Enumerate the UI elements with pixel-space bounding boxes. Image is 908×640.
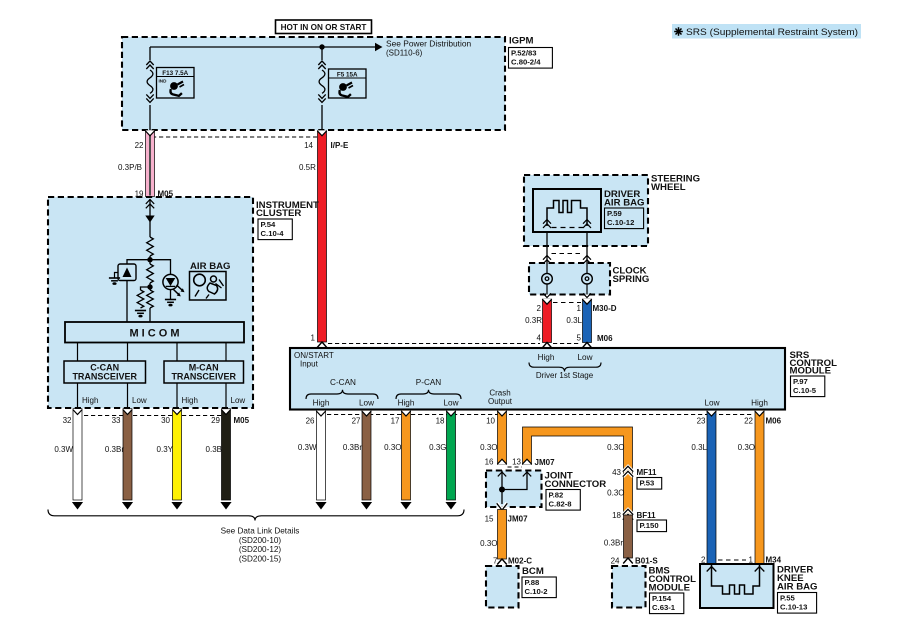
svg-text:CLUSTER: CLUSTER	[256, 208, 301, 219]
svg-text:JM07: JM07	[508, 515, 529, 524]
svg-text:F5 15A: F5 15A	[337, 71, 358, 78]
wire 0.3P/B pink-black	[146, 131, 155, 197]
box MICOM	[65, 322, 244, 343]
svg-text:0.3O: 0.3O	[480, 443, 497, 452]
svg-text:Output: Output	[488, 397, 513, 406]
svg-text:P.88: P.88	[525, 578, 541, 587]
svg-text:JM07: JM07	[535, 458, 556, 467]
svg-text:18: 18	[612, 511, 621, 520]
resistor R2	[147, 264, 154, 283]
fuse F13 label box	[157, 68, 195, 99]
svg-text:IGPM: IGPM	[509, 36, 534, 47]
svg-text:P-CAN: P-CAN	[416, 378, 442, 387]
ground G2	[135, 310, 146, 312]
module BMS control module box	[612, 566, 646, 608]
svg-text:(SD200-15): (SD200-15)	[239, 554, 282, 563]
label cluster page refs	[258, 219, 292, 240]
svg-text:TRANSCEIVER: TRANSCEIVER	[171, 372, 236, 382]
wire node B branch	[141, 287, 151, 290]
svg-text:14: 14	[304, 141, 313, 150]
connector BF11 chevrons	[623, 510, 633, 515]
svg-text:M02-C: M02-C	[508, 557, 532, 566]
chevron pin1 SRS entry	[317, 342, 327, 348]
svg-text:AIR BAG: AIR BAG	[604, 198, 645, 209]
svg-text:P.150: P.150	[640, 521, 659, 530]
svg-text:Low: Low	[704, 399, 719, 408]
label BCM page refs	[522, 577, 556, 598]
svg-text:4: 4	[537, 334, 542, 343]
svg-text:MODULE: MODULE	[649, 583, 691, 594]
module SRS control box	[290, 348, 785, 410]
svg-text:(SD200-12): (SD200-12)	[239, 545, 282, 554]
svg-text:26: 26	[306, 417, 315, 426]
LED emission arrows	[177, 285, 183, 290]
icon asterisk	[674, 27, 683, 36]
svg-text:Low: Low	[577, 353, 592, 362]
svg-text:High: High	[398, 399, 415, 408]
svg-text:C.10-5: C.10-5	[793, 386, 817, 395]
chevron joint connector exit	[497, 503, 507, 510]
wire node A to comparator	[127, 260, 150, 264]
svg-text:16: 16	[485, 458, 494, 467]
resistor R3	[137, 290, 144, 308]
wire 0.3Y cluster M-CAN High	[173, 409, 182, 500]
wire 0.3O SRS P-CAN High	[402, 410, 411, 500]
svg-text:22: 22	[135, 141, 144, 150]
squib driver air bag	[547, 201, 587, 227]
module driver air bag box	[533, 189, 601, 232]
module steering wheel box	[524, 175, 648, 246]
svg-text:High: High	[538, 353, 555, 362]
wires driver airbag to clock spring	[546, 232, 548, 263]
svg-text:Low: Low	[359, 399, 374, 408]
svg-text:C.10-2: C.10-2	[525, 587, 548, 596]
svg-text:22: 22	[744, 417, 753, 426]
resistor R1	[147, 237, 154, 256]
svg-text:BCM: BCM	[522, 566, 544, 577]
svg-text:27: 27	[352, 417, 361, 426]
wire R4 to MICOM	[149, 308, 151, 322]
svg-text:P.54: P.54	[261, 220, 277, 229]
svg-text:24: 24	[611, 557, 620, 566]
svg-text:0.3Br: 0.3Br	[343, 443, 362, 452]
svg-text:43: 43	[612, 468, 621, 477]
svg-text:BF11: BF11	[637, 511, 657, 520]
wire 0.3O elbow JM07 to MF11	[523, 427, 633, 515]
svg-text:C.10-4: C.10-4	[261, 229, 285, 238]
svg-text:High: High	[751, 399, 768, 408]
svg-text:WHEEL: WHEEL	[651, 182, 686, 193]
coil clock spring right	[586, 263, 588, 274]
svg-text:30: 30	[161, 416, 170, 425]
svg-text:CONNECTOR: CONNECTOR	[545, 479, 607, 490]
junction node B	[147, 284, 152, 289]
diode D1	[145, 216, 154, 223]
svg-text:7: 7	[493, 557, 498, 566]
connector M06 bottom dashed line	[327, 414, 752, 416]
svg-text:P.52/83: P.52/83	[511, 48, 537, 57]
svg-text:32: 32	[63, 416, 72, 425]
svg-text:F13 7.5A: F13 7.5A	[162, 70, 188, 77]
svg-text:5: 5	[577, 334, 582, 343]
connector M34 dashed line	[718, 559, 746, 561]
wire 0.3O JM07 to BCM	[498, 510, 507, 560]
svg-text:0.3W: 0.3W	[54, 445, 73, 454]
fuse F13 7.5A symbol	[146, 61, 153, 65]
svg-text:P.55: P.55	[780, 593, 796, 602]
comparator U2 box	[118, 264, 136, 281]
svg-text:0.3W: 0.3W	[298, 443, 317, 452]
wire 0.3W SRS C-CAN High	[317, 410, 326, 500]
svg-text:0.3O: 0.3O	[384, 443, 401, 452]
svg-text:C.82-8: C.82-8	[549, 499, 573, 508]
svg-text:0.3O: 0.3O	[738, 443, 755, 452]
wires MICOM to transceivers	[77, 343, 79, 362]
connector JM07 dashed line	[508, 466, 523, 468]
module driver knee air bag box	[700, 564, 774, 608]
LED airbag warning lamp	[163, 274, 178, 289]
label BMS page refs	[650, 593, 684, 614]
chevrons clock spring entry	[543, 256, 551, 260]
module IGPM box	[122, 37, 505, 130]
svg-text:1: 1	[311, 334, 316, 343]
cluster entry chevrons	[146, 200, 154, 204]
wire 0.3Br SRS C-CAN Low	[362, 410, 371, 500]
icon airbag cluster	[190, 272, 227, 301]
svg-text:MODULE: MODULE	[790, 366, 832, 377]
brace driver 1st stage	[529, 363, 601, 372]
svg-text:P.53: P.53	[640, 478, 655, 487]
ground G1	[115, 273, 119, 278]
wire 0.3R red clock spring to SRS	[543, 299, 552, 343]
wire 0.3G SRS P-CAN Low	[447, 410, 456, 500]
svg-text:13: 13	[512, 458, 521, 467]
wire 0.3L SRS to knee airbag	[707, 410, 716, 564]
svg-text:0.3R: 0.3R	[525, 316, 542, 325]
fuse F5 label box	[329, 69, 367, 98]
wires transceivers to cluster edge	[77, 383, 79, 408]
resistor R4	[147, 290, 154, 308]
wire 0.3W cluster C-CAN High	[73, 409, 82, 500]
svg-text:M05: M05	[234, 416, 250, 425]
svg-text:23: 23	[697, 417, 706, 426]
svg-text:C.10-13: C.10-13	[780, 602, 807, 611]
connector M05 dashed line	[84, 415, 231, 417]
wire 0.3B cluster M-CAN Low	[222, 409, 231, 500]
icon airbag F5	[339, 83, 347, 91]
squib knee air bag	[712, 564, 760, 594]
junction node A	[147, 257, 152, 262]
svg-text:M06: M06	[597, 334, 613, 343]
svg-text:SPRING: SPRING	[613, 274, 650, 285]
chevrons knee airbag entries	[707, 567, 717, 572]
svg-text:1: 1	[577, 304, 582, 313]
connector dashed line steering	[552, 253, 584, 255]
svg-text:0.3Br: 0.3Br	[105, 445, 124, 454]
svg-text:10: 10	[486, 417, 495, 426]
svg-text:2: 2	[537, 304, 542, 313]
svg-text:P.82: P.82	[549, 490, 564, 499]
wire LED to ground	[170, 290, 172, 299]
svg-text:B01-S: B01-S	[635, 557, 658, 566]
module clock spring box	[529, 263, 610, 295]
svg-text:TRANSCEIVER: TRANSCEIVER	[72, 372, 137, 382]
box M-CAN transceiver	[164, 361, 244, 383]
svg-text:Low: Low	[443, 399, 458, 408]
svg-text:(SD200-10): (SD200-10)	[239, 536, 282, 545]
svg-text:C.63-1: C.63-1	[652, 603, 676, 612]
junction power bus at F5	[319, 44, 324, 49]
chevrons clock spring exit	[543, 293, 551, 297]
svg-text:MF11: MF11	[637, 468, 658, 477]
note SRS header highlight	[672, 24, 861, 39]
svg-text:P.154: P.154	[652, 594, 672, 603]
connector MF11 chevrons	[623, 467, 633, 472]
chevrons joint connector entries	[498, 472, 506, 476]
svg-text:(SD110-6): (SD110-6)	[386, 49, 423, 58]
svg-text:AIR BAG: AIR BAG	[777, 582, 818, 593]
wire 0.3O SRS to knee airbag	[755, 410, 764, 564]
svg-text:33: 33	[112, 416, 121, 425]
dashed line in driver air bag	[552, 227, 584, 229]
svg-text:C.80-2/4: C.80-2/4	[511, 57, 541, 66]
module BCM box	[486, 566, 519, 608]
wire 0.3L blue clock spring to SRS	[583, 299, 592, 343]
wire 0.3O crash output pin10	[498, 410, 507, 464]
wire 0.3Br cluster C-CAN Low	[123, 409, 132, 500]
svg-text:29: 29	[211, 416, 220, 425]
svg-text:Low: Low	[132, 396, 147, 405]
svg-text:15: 15	[485, 515, 494, 524]
svg-text:HOT IN ON OR START: HOT IN ON OR START	[281, 23, 367, 32]
wire cluster main vertical	[149, 199, 151, 237]
wire node A to LED	[150, 260, 171, 274]
svg-text:C-CAN: C-CAN	[330, 378, 356, 387]
svg-text:0.3B: 0.3B	[206, 445, 222, 454]
svg-text:C.10-12: C.10-12	[607, 218, 634, 227]
svg-text:See Power Distribution: See Power Distribution	[386, 39, 472, 49]
fuse F5 15A symbol	[318, 61, 325, 65]
label driver air bag page refs	[605, 208, 644, 229]
svg-text:High: High	[313, 399, 330, 408]
svg-text:0.3O: 0.3O	[480, 539, 497, 548]
connector M30-D dashed line	[553, 302, 581, 304]
label IGPM page refs	[509, 48, 553, 69]
brace C-CAN	[306, 390, 378, 399]
svg-text:IND: IND	[159, 78, 168, 83]
wire 0.5R red	[318, 131, 327, 342]
chevrons squib leads	[543, 220, 551, 224]
icon airbag F13	[170, 82, 178, 90]
svg-text:P.97: P.97	[793, 377, 808, 386]
module instrument cluster box	[48, 197, 253, 408]
connector I/P-E dashed line	[152, 136, 317, 138]
ground G3	[165, 299, 176, 301]
box C-CAN transceiver	[64, 361, 146, 383]
module joint connector box	[486, 471, 542, 508]
svg-text:0.3O: 0.3O	[607, 489, 624, 498]
svg-text:M I C O M: M I C O M	[129, 328, 179, 340]
svg-text:17: 17	[391, 417, 400, 426]
svg-text:High: High	[82, 396, 98, 405]
label SRS page refs	[791, 376, 825, 397]
svg-text:SRS (Supplemental Restraint Sy: SRS (Supplemental Restraint System)	[686, 27, 858, 37]
svg-text:AIR BAG: AIR BAG	[190, 261, 231, 272]
brace see data link details	[48, 510, 464, 521]
wire comparator to MICOM	[126, 281, 128, 323]
connector M06 top dashed line	[328, 343, 540, 345]
svg-text:0.3O: 0.3O	[607, 443, 624, 452]
label knee airbag page refs	[778, 593, 817, 614]
svg-text:M06: M06	[766, 417, 782, 426]
svg-text:I/P-E: I/P-E	[331, 141, 349, 150]
svg-text:0.5R: 0.5R	[299, 163, 316, 172]
svg-text:P.59: P.59	[607, 209, 622, 218]
svg-text:0.3Br: 0.3Br	[604, 539, 623, 548]
svg-text:Driver 1st Stage: Driver 1st Stage	[536, 371, 594, 380]
svg-text:Low: Low	[231, 396, 246, 405]
wire power bus horizontal	[150, 46, 376, 48]
label HOT IN ON OR START	[276, 20, 372, 34]
label joint connector page refs	[546, 490, 580, 511]
junction joint connector	[499, 487, 505, 493]
svg-text:Input: Input	[300, 360, 319, 369]
wire 0.3Br to BMS	[624, 515, 633, 558]
svg-text:0.3G: 0.3G	[429, 443, 446, 452]
joint connector internal wiring	[501, 471, 503, 505]
svg-text:0.3L: 0.3L	[691, 443, 707, 452]
svg-text:0.3L: 0.3L	[566, 316, 582, 325]
brace P-CAN	[396, 390, 461, 399]
coil clock spring left	[546, 263, 548, 274]
svg-text:High: High	[182, 396, 198, 405]
svg-text:18: 18	[436, 417, 445, 426]
svg-text:M30-D: M30-D	[593, 304, 617, 313]
svg-text:0.3P/B: 0.3P/B	[118, 163, 142, 172]
svg-text:0.3Y: 0.3Y	[157, 445, 174, 454]
svg-text:See Data Link Details: See Data Link Details	[221, 527, 300, 536]
arrow see power distribution	[375, 43, 383, 52]
